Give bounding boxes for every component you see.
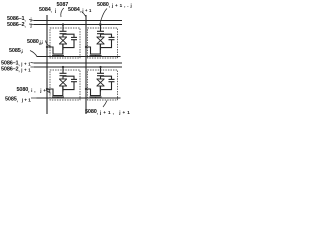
wire (cell j,i between cap and LC element) — [62, 34, 64, 37]
wire (cell j,i+1 parallel-capacitor branch bottom) — [63, 82, 74, 90]
leader line (label 5086-1_j) — [29, 20, 34, 21]
leader line (label 5080_j,i+1) — [46, 90, 51, 94]
leader line (label 5080_j+1,i) — [100, 9, 108, 26]
transistor (TFT, cell j,i+1) — [47, 86, 64, 98]
wire (cell j,i element to node) — [62, 44, 64, 50]
leader line (label 5085_i) — [30, 51, 37, 57]
pixel box 5080_j,i+1 (dashed cell outline, bottom-left) — [50, 70, 80, 100]
junction (5084_j to TFT source, cell j,i+1) — [46, 88, 48, 90]
capacitor (parallel, cell j,i+1) — [71, 79, 77, 81]
wire (cell j+1,i+1 parallel-capacitor branch bottom) — [101, 82, 112, 90]
capacitor (parallel, cell j+1,i+1) — [109, 79, 115, 81]
liquid-crystal element (hourglass, cell j+1,i+1) — [97, 79, 105, 86]
liquid-crystal element (hourglass, cell j,i) — [59, 37, 67, 44]
wire (cell j,i+1 parallel-capacitor branch top) — [63, 76, 74, 79]
capacitor (storage, cell j,i+1) — [60, 73, 67, 75]
svg-text:5080,j,i: 5080,j,i — [27, 39, 43, 45]
pixel box 5080_j,i (dashed cell outline, top-left) — [50, 28, 80, 58]
wire 5086-2_j+1 (lower scan line, row i+1) — [34, 66, 122, 68]
capacitor (parallel, cell j+1,i) — [109, 37, 115, 39]
junction (5084_j+1 to TFT source, cell j+1,i) — [85, 46, 87, 48]
wire 5086-1_j+1 (upper scan line, row i+1) — [34, 62, 122, 64]
leader line (label 5085_i+1) — [31, 97, 37, 99]
svg-text:5080,i, j+1: 5080,i, j+1 — [17, 87, 51, 93]
wire (cell j,i storage-cap lead from 5086-2_j) — [62, 25, 64, 32]
wire (cell j,i+1 storage-cap lead from 5086-2_j+1) — [62, 67, 64, 73]
liquid-crystal element (hourglass, cell j,i+1) — [59, 79, 67, 86]
leader line (label 5084_j+1) — [82, 12, 86, 17]
junction (5084_j+1 to TFT source, cell j+1,i+1) — [85, 88, 87, 90]
pixel box 5080_j+1,i+1 (dashed cell outline, bottom-right) — [88, 70, 118, 100]
wire 5084_j+1 (data line, column j+1) — [85, 15, 87, 114]
svg-text:5080,j+1,.j: 5080,j+1,.j — [97, 2, 132, 8]
junction (storage cap to 5086-2_j+1, cell j+1,i+1) — [99, 66, 101, 68]
leader line (label 5086-2_j) — [29, 23, 34, 26]
transistor (TFT, cell j+1,i) — [86, 44, 102, 57]
leader line (label 5080_j,i) — [46, 41, 51, 47]
wire (cell j,i+1 element to node) — [62, 86, 64, 92]
junction (storage cap to 5086-2_j+1, cell j,i+1) — [62, 66, 64, 68]
leader line (label 5087) — [61, 8, 64, 17]
wire (cell j,i+1 between cap and LC element) — [62, 76, 64, 79]
junction (storage cap to 5086-2_j, cell j+1,i) — [99, 23, 101, 25]
wire 5084_j (data line, column j) — [46, 15, 48, 114]
svg-text:5087: 5087 — [57, 2, 69, 8]
leader line (label 5080_j+1,i+1) — [103, 101, 107, 108]
wire (cell j,i parallel-capacitor branch top) — [63, 34, 74, 37]
wire 5085_i+1 (capacitor line, row i+1) — [37, 97, 121, 99]
junction (5084_j to TFT source, cell j,i) — [46, 46, 48, 48]
wire (cell j+1,i+1 between cap and LC element) — [100, 76, 102, 79]
wire (cell j+1,i element to node) — [100, 44, 102, 50]
transistor (TFT, cell j,i) — [47, 44, 64, 57]
transistor (TFT, cell j+1,i+1) — [86, 86, 102, 98]
liquid-crystal element (hourglass, cell j+1,i) — [97, 37, 105, 44]
capacitor (parallel, cell j,i) — [71, 37, 77, 39]
capacitor (storage, cell j+1,i) — [97, 31, 104, 33]
wire (cell j+1,i parallel-capacitor branch top) — [101, 34, 112, 37]
wire 5085_i (capacitor line, row i) — [37, 56, 121, 58]
capacitor (storage, cell j,i) — [60, 31, 67, 33]
svg-text:5080,j+1, j+1: 5080,j+1, j+1 — [85, 109, 130, 115]
wire (cell j+1,i parallel-capacitor branch bottom) — [101, 40, 112, 48]
wire (cell j+1,i+1 storage-cap lead from 5086-2_j+1) — [100, 67, 102, 73]
capacitor (storage, cell j+1,i+1) — [97, 73, 104, 75]
svg-text:5084,j+1: 5084,j+1 — [68, 7, 92, 13]
junction (storage cap to 5086-2_j, cell j,i) — [62, 23, 64, 25]
wire 5086-2_j (lower scan line, row i) — [34, 24, 122, 26]
pixel box 5080_j+1,i (dashed cell outline, top-right) — [88, 28, 118, 58]
wire (cell j+1,i between cap and LC element) — [100, 34, 102, 37]
wire (cell j+1,i+1 parallel-capacitor branch top) — [101, 76, 112, 79]
leader line (label 5086-2_j+1) — [31, 66, 35, 68]
svg-text:5085,i: 5085,i — [9, 48, 23, 54]
wire (cell j+1,i storage-cap lead from 5086-2_j) — [100, 25, 102, 32]
wire 5086-1_j (upper scan line, row i) — [34, 20, 122, 22]
wire (cell j,i parallel-capacitor branch bottom) — [63, 40, 74, 48]
wire (cell j+1,i+1 element to node) — [100, 86, 102, 92]
leader line (label 5086-1_j+1) — [31, 62, 35, 65]
